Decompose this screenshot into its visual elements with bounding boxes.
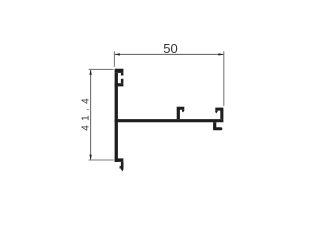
middle hook stub — [177, 109, 180, 119]
bottom leg tip — [121, 169, 124, 171]
bottom leg bump — [120, 166, 121, 169]
dimension 41.4: top extension line — [89, 68, 114, 70]
profile horizontal web — [115, 119, 224, 122]
right end beak — [215, 111, 217, 114]
profile upright bar (left vertical wall) — [115, 73, 118, 119]
bottom step — [115, 158, 124, 162]
right end top flange — [215, 108, 223, 111]
right end up-stub — [220, 111, 223, 120]
bottom leg — [121, 162, 124, 170]
profile snap up-tab — [121, 79, 124, 83]
profile snap arm — [115, 83, 124, 86]
middle hook beak — [182, 110, 184, 113]
right end down-stub — [213, 122, 216, 128]
dimension 41.4: top arrow — [89, 70, 91, 75]
dimension 50: right arrow — [218, 53, 223, 55]
dimension 41.4: bottom extension line — [89, 159, 114, 161]
svg-text:50: 50 — [163, 41, 177, 56]
middle hook flange — [177, 107, 185, 110]
profile top cap down-tab — [121, 73, 124, 76]
svg-text:41.4: 41.4 — [81, 94, 92, 131]
profile top cap — [115, 69, 124, 73]
right end bottom foot — [213, 127, 222, 130]
dimension 50: right extension line — [223, 51, 225, 106]
dimension 41.4: dimension line — [90, 70, 92, 160]
dimension 50: left extension line — [113, 51, 115, 67]
dimension 50: dimension line — [115, 53, 224, 55]
dimension 41.4: bottom arrow — [89, 155, 91, 160]
dimension 50: left arrow — [115, 53, 120, 55]
